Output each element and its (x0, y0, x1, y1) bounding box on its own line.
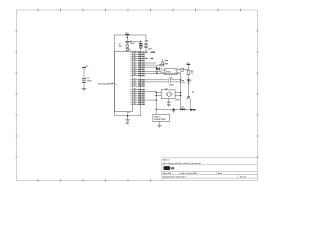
title block (162, 158, 258, 181)
net stub end (192, 109, 196, 111)
wire left bus vertical (155, 92, 157, 115)
junction row PB5 (156, 73, 157, 74)
wire D2 to U2 pin1 (156, 67, 164, 70)
opto U2 body (164, 69, 177, 75)
wire: right loop vertical (140, 41, 142, 115)
U2 right pin wire to bus (177, 72, 181, 74)
junctions right bus (180, 79, 181, 80)
junction J1 feed (156, 109, 157, 110)
capacitor C4 22pF (144, 43, 147, 44)
wire Q1 to bottom junction (189, 100, 191, 110)
pin marks ic top (129, 49, 131, 51)
svg-text:100nF: 100nF (130, 43, 135, 45)
junction below VCC (127, 37, 129, 39)
J1 pins down (159, 121, 161, 125)
wire: ic top extension (133, 51, 141, 53)
power flag VCC left (82, 66, 89, 68)
diode D4 on bottom rail (181, 106, 185, 111)
wire row PB5 long (145, 73, 181, 75)
capacitor C6 on row PC0 (145, 79, 181, 81)
wire: VCC top rail (114, 34, 146, 36)
wire: crystal cap column (145, 35, 147, 52)
wire row PB0 (145, 62, 156, 64)
resistor R1 10k (126, 45, 128, 47)
ground U3 (167, 105, 171, 107)
LED D3 (187, 79, 191, 83)
svg-text:Size: A4: Size: A4 (163, 172, 172, 175)
svg-text:File: cheap_arduino_control_ci: File: cheap_arduino_control_circuit.sch (163, 162, 202, 165)
junction right bus bottom (180, 109, 181, 110)
svg-text:CONN_2: CONN_2 (154, 116, 161, 118)
junction U3 pins (156, 92, 157, 93)
junction bottom rail left (173, 108, 175, 110)
wire row PB4 to U2 pin2 (145, 71, 165, 73)
wire row PD5 to bus (145, 99, 156, 101)
power flag VCC right column (186, 63, 190, 65)
capacitor C9 label (169, 84, 173, 85)
power flag VCC main (125, 33, 130, 35)
capacitor C7 on row AIN0 (145, 81, 181, 83)
svg-text:U3: U3 (165, 88, 167, 90)
U3 bottom stub (168, 98, 170, 104)
frame zone tick marks bottom (38, 179, 151, 181)
bridge U3 body (161, 90, 175, 99)
capacitor C5 22pF (144, 46, 147, 47)
wire: bottom gnd rail (114, 115, 140, 117)
crystal lower element (140, 47, 142, 48)
connector J1 body (153, 114, 170, 121)
wire row PB1 to R2 (145, 64, 160, 66)
svg-text:22pF: 22pF (148, 49, 152, 51)
inductor L1 (126, 48, 128, 50)
wire: left vertical gnd return (113, 35, 115, 116)
capacitor C3 decoupling left (82, 68, 92, 88)
pin 21 AREF left stub (111, 82, 115, 84)
frame zone tick marks right (256, 31, 258, 157)
ground bottom rail (172, 109, 175, 112)
title block logo (164, 166, 171, 170)
svg-text:PC817: PC817 (166, 71, 171, 73)
IC U1 body (114, 52, 132, 112)
bottom rail wire (156, 108, 195, 110)
resistor R5 1k (187, 70, 190, 75)
ground left (82, 89, 87, 91)
junction gnd (127, 115, 129, 117)
bridge diamond (166, 92, 172, 97)
resistor R3 vertical (162, 59, 164, 64)
wire: vcc chain (126, 35, 128, 52)
svg-text:10k: 10k (119, 46, 122, 48)
U3 right pin wires (175, 93, 181, 96)
sheet border frame (17, 10, 258, 181)
wire to ground (127, 116, 129, 120)
resistor R4 small (181, 68, 183, 71)
pin GND bottom stub (127, 112, 129, 116)
ground main (125, 120, 130, 122)
diode D2 (156, 67, 159, 70)
svg-text:KiCad E.D.A. kicad 4.0.7: KiCad E.D.A. kicad 4.0.7 (163, 176, 187, 179)
resistor R2 (160, 64, 164, 66)
wire vcc right column (188, 64, 190, 96)
U3 left pin stubs (156, 93, 161, 96)
capacitor C8 label (169, 78, 172, 79)
wire: crystal box top link (127, 40, 141, 42)
ground J1 (157, 125, 161, 127)
svg-text:Date: 21 jun 2012: Date: 21 jun 2012 (181, 172, 198, 175)
junction crystal top (140, 41, 141, 42)
frame zone tick marks top (38, 9, 241, 11)
capacitor C1 100nF (126, 41, 130, 42)
frame zone tick marks left (15, 31, 17, 157)
wire right bus vertical (180, 73, 182, 109)
svg-text:ATmega328P-A: ATmega328P-A (98, 83, 113, 86)
svg-text:22pF: 22pF (145, 41, 149, 43)
transistor Q1 (187, 96, 191, 99)
junction bottom rail right (190, 109, 192, 111)
svg-text:Sheet: /: Sheet: / (163, 159, 171, 162)
svg-text:1k: 1k (191, 73, 193, 75)
junction D2 in (156, 67, 157, 68)
IC internal pin name marks (115, 52, 132, 105)
U2 right pin wire to R5 node (177, 69, 181, 71)
svg-text:100nF: 100nF (87, 80, 92, 82)
wire row PB2 to D2 (145, 66, 156, 68)
crystal Y1 (139, 43, 142, 45)
wire row PD1 to left bus (145, 91, 156, 93)
svg-text:Q1: Q1 (192, 92, 194, 94)
svg-text:Id: 1/1: Id: 1/1 (240, 177, 247, 179)
net label marks right bus (181, 79, 184, 82)
svg-text:Rev:: Rev: (218, 173, 223, 175)
svg-text:SCREW TERM: SCREW TERM (154, 119, 166, 121)
